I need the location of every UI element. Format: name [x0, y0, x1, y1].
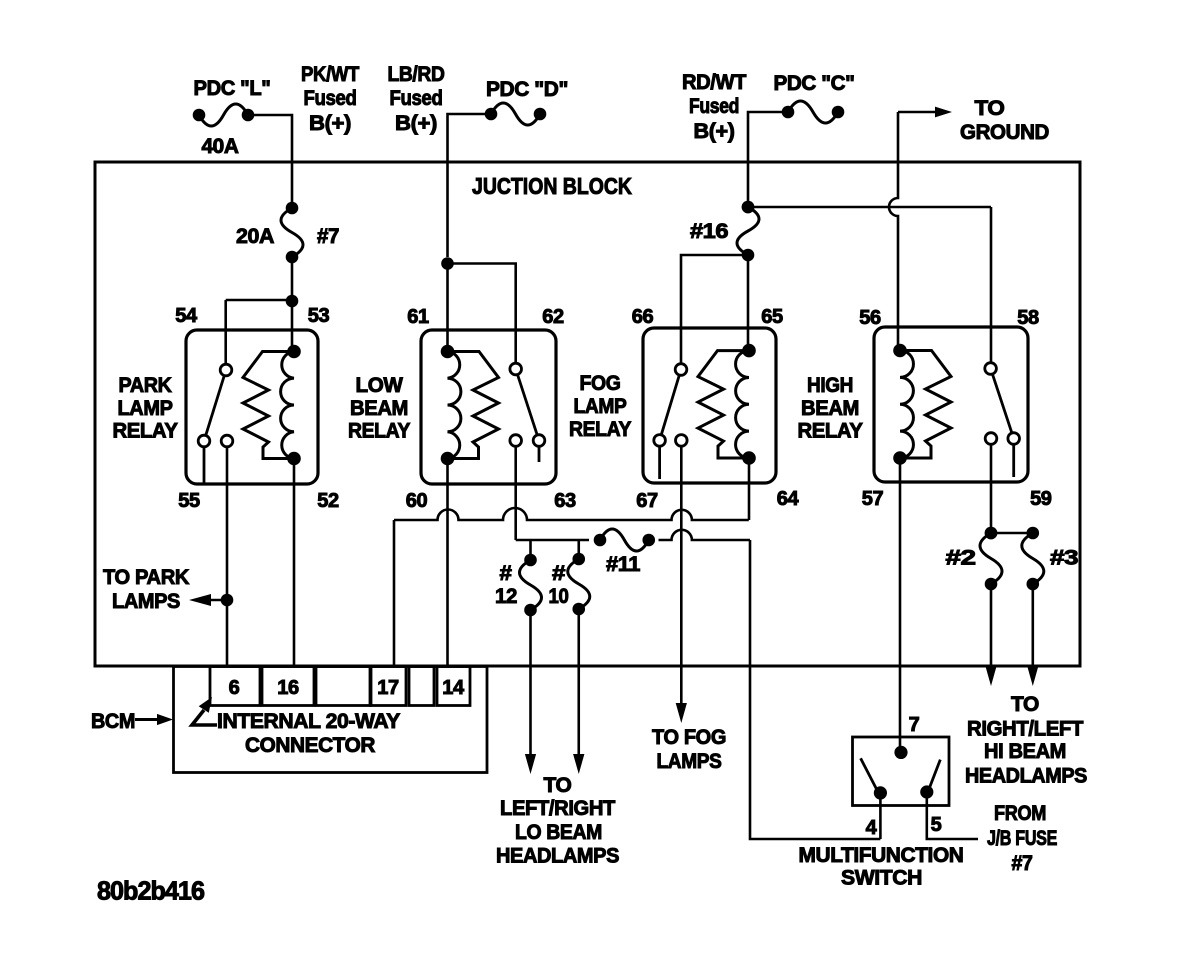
wire PDC C to fuse 16 [748, 112, 788, 201]
svg-text:#: # [552, 562, 566, 585]
relay K1 switch [198, 364, 233, 483]
svg-text:60: 60 [406, 490, 428, 512]
svg-text:PK/WT: PK/WT [301, 63, 360, 86]
svg-text:TO FOG: TO FOG [652, 726, 726, 749]
wire fuse12 stub [529, 540, 532, 555]
label #11 [606, 553, 641, 576]
wire pin54 drop [224, 300, 227, 364]
svg-text:LAMPS: LAMPS [657, 750, 722, 773]
bus pin17 to pin64 [394, 508, 749, 666]
relay K4 high beam box [874, 327, 1028, 482]
pin 62 label [542, 306, 564, 328]
label RD/WT Fused B+ [682, 71, 747, 143]
pin 14 label [442, 677, 465, 699]
wire pin52 out [293, 459, 296, 667]
pin 58 label [1017, 307, 1039, 329]
arrow lo beam left [525, 754, 536, 774]
pin 7 node [894, 746, 907, 759]
svg-text:52: 52 [317, 490, 339, 512]
pin 54 label [175, 305, 198, 327]
fuse 2 [980, 527, 1002, 591]
pin 61 label [407, 306, 429, 328]
wire pin58 drop [990, 207, 993, 363]
wire PDC L to fuse 7 [248, 115, 292, 202]
wire PDC D to low beam [448, 114, 492, 257]
fuse PDC C [782, 101, 845, 123]
arrow BCM [135, 714, 173, 725]
svg-text:LAMP: LAMP [574, 395, 627, 418]
svg-text:7: 7 [909, 714, 920, 736]
label FOG LAMP RELAY [569, 372, 631, 441]
svg-text:FOG: FOG [580, 372, 621, 395]
svg-text:HI BEAM: HI BEAM [984, 740, 1066, 763]
wire bus to multifunction pin4 [750, 540, 880, 839]
arrow to fog lamps [676, 703, 687, 723]
svg-text:65: 65 [761, 306, 783, 328]
label LOW BEAM RELAY [348, 374, 410, 443]
svg-text:MULTIFUNCTION: MULTIFUNCTION [799, 844, 964, 867]
wire fuse16 to pin65 [747, 255, 750, 352]
label #16 [690, 220, 728, 243]
pin 7 label [909, 714, 920, 736]
svg-text:53: 53 [308, 305, 330, 327]
wire fuse16 branch pin66 [681, 255, 748, 363]
node 61 junction [441, 257, 454, 351]
bus pin63 to multifunction [516, 530, 750, 540]
svg-text:16: 16 [277, 677, 299, 699]
label PARK LAMP RELAY [113, 374, 178, 443]
label HIGH BEAM RELAY [798, 374, 863, 443]
label FROM J/B FUSE #7 [987, 802, 1057, 875]
label #3 [1050, 547, 1078, 570]
node 53 junction [226, 295, 299, 352]
pin 60 label [406, 490, 428, 512]
wire node to pin58 horizontal [748, 206, 991, 209]
svg-text:RELAY: RELAY [569, 418, 631, 441]
label JUCTION BLOCK [472, 173, 632, 199]
wire pin67 out [680, 446, 683, 703]
svg-text:LB/RD: LB/RD [388, 63, 445, 86]
svg-text:HEADLAMPS: HEADLAMPS [965, 765, 1087, 788]
pin 52 label [317, 490, 339, 512]
svg-text:RIGHT/LEFT: RIGHT/LEFT [967, 718, 1084, 741]
connector outer box [174, 667, 488, 773]
svg-text:64: 64 [777, 488, 800, 510]
label PDC L [194, 77, 271, 100]
svg-text:HIGH: HIGH [807, 374, 853, 397]
fuse PDC D [485, 103, 547, 125]
svg-text:40A: 40A [202, 135, 239, 158]
wire pin57 to multifunction [899, 458, 902, 746]
pin 57 label [862, 488, 884, 510]
wire lo beam right [577, 609, 580, 756]
wire 59 to fuse3 [991, 532, 1033, 535]
fuse 11 [594, 529, 655, 551]
connector pin cells [210, 667, 470, 706]
wire pin55 out [226, 447, 229, 666]
svg-text:LO BEAM: LO BEAM [515, 821, 602, 844]
svg-text:14: 14 [442, 677, 465, 699]
svg-text:SWITCH: SWITCH [841, 867, 922, 890]
svg-text:RELAY: RELAY [113, 420, 178, 443]
fuse 12 [520, 554, 542, 617]
fuse PDC L 40A [193, 104, 255, 126]
svg-text:PDC "L": PDC "L" [194, 77, 271, 100]
figure number [97, 876, 205, 906]
junction block outline [95, 162, 1080, 666]
svg-text:TO PARK: TO PARK [103, 566, 189, 589]
svg-text:B(+): B(+) [694, 120, 735, 143]
arrow hi beam left [985, 666, 996, 686]
pin 67 label [636, 490, 658, 512]
relay K2 low beam box [421, 330, 556, 484]
svg-text:LEFT/RIGHT: LEFT/RIGHT [500, 797, 616, 820]
svg-text:RD/WT: RD/WT [682, 71, 747, 94]
svg-text:LOW: LOW [356, 374, 404, 397]
svg-text:LAMP: LAMP [118, 397, 173, 420]
svg-text:55: 55 [178, 490, 200, 512]
wire pin59 out [990, 444, 993, 533]
svg-text:LAMPS: LAMPS [112, 590, 180, 613]
svg-text:INTERNAL 20-WAY: INTERNAL 20-WAY [217, 710, 400, 733]
fuse 7 20A [281, 202, 303, 264]
pin 64 label [777, 488, 800, 510]
wire to ground vertical with hop [889, 112, 898, 351]
svg-text:TO: TO [975, 97, 1005, 120]
wire lo beam left [529, 610, 532, 756]
label TO LEFT/RIGHT LO BEAM HEADLAMPS [496, 774, 619, 868]
label TO GROUND [960, 97, 1049, 144]
svg-text:80b2b416: 80b2b416 [97, 876, 205, 906]
relay K3 coil [698, 344, 756, 465]
svg-text:54: 54 [175, 305, 198, 327]
svg-text:JUCTION BLOCK: JUCTION BLOCK [472, 173, 632, 199]
svg-text:BCM: BCM [91, 710, 135, 733]
label TO FOG LAMPS [652, 726, 726, 773]
svg-text:10: 10 [549, 585, 569, 608]
svg-text:6: 6 [229, 677, 240, 699]
svg-text:57: 57 [862, 488, 884, 510]
pin 65 label [761, 306, 783, 328]
svg-text:FROM: FROM [994, 802, 1046, 825]
svg-text:59: 59 [1030, 488, 1052, 510]
fuse 16 [737, 201, 759, 262]
pin 59 label [1030, 488, 1052, 510]
svg-text:TO: TO [1011, 693, 1039, 716]
multifunction switch box [853, 737, 950, 806]
label INTERNAL 20-WAY CONNECTOR [217, 710, 400, 757]
svg-text:PDC "D": PDC "D" [486, 78, 568, 101]
wire pin63 out [514, 446, 517, 540]
label #2 [946, 547, 976, 570]
svg-text:B(+): B(+) [309, 112, 351, 135]
svg-text:61: 61 [407, 306, 429, 328]
wire pin60 out [446, 459, 449, 667]
svg-text:58: 58 [1017, 307, 1039, 329]
svg-text:4: 4 [866, 817, 878, 839]
label #7 [317, 225, 339, 248]
label MULTIFUNCTION SWITCH [799, 844, 964, 890]
label 20A [236, 225, 274, 248]
svg-text:20A: 20A [236, 225, 274, 248]
svg-text:56: 56 [859, 307, 881, 329]
relay K4 coil [893, 344, 951, 465]
wire pin5 [927, 792, 978, 839]
svg-text:PDC "C": PDC "C" [774, 72, 855, 95]
relay K2 switch [510, 363, 545, 462]
svg-text:63: 63 [554, 490, 576, 512]
pin 17 label [377, 677, 399, 699]
arrow to park lamps [189, 594, 211, 606]
fuse 10 [568, 553, 590, 616]
svg-text:12: 12 [495, 585, 517, 608]
label 40A [202, 135, 239, 158]
svg-text:J/B FUSE: J/B FUSE [987, 827, 1057, 850]
bolt arrow to connector [192, 697, 217, 725]
pin 5 label [931, 814, 942, 836]
label TO RIGHT/LEFT HI BEAM HEADLAMPS [965, 693, 1087, 788]
wire hi beam left [990, 584, 993, 668]
relay K3 switch [654, 364, 687, 479]
label PK/WT Fused B+ [301, 63, 360, 135]
relay K4 switch [985, 363, 1020, 477]
svg-text:Fused: Fused [689, 95, 739, 118]
svg-text:BEAM: BEAM [350, 397, 408, 420]
label #12 [495, 562, 517, 608]
pin 66 label [632, 306, 654, 328]
relay K1 park lamp box [186, 330, 318, 484]
pin 55 label [178, 490, 200, 512]
wire to ground horizontal [898, 111, 936, 114]
arrow to ground [935, 107, 952, 118]
svg-text:#16: #16 [690, 220, 728, 243]
label PDC C [774, 72, 855, 95]
svg-text:#11: #11 [606, 553, 641, 576]
svg-text:TO: TO [544, 774, 572, 797]
fuse 3 [1022, 527, 1044, 591]
pin 56 label [859, 307, 881, 329]
wire fuse7 to node53 [291, 257, 294, 301]
wire pin62 branch [448, 264, 516, 364]
node park lamps [221, 594, 234, 607]
switch arm right [920, 760, 940, 799]
svg-text:HEADLAMPS: HEADLAMPS [496, 845, 619, 868]
svg-text:67: 67 [636, 490, 658, 512]
svg-text:CONNECTOR: CONNECTOR [245, 734, 375, 757]
label #10 [549, 562, 569, 608]
relay K3 fog lamp box [643, 328, 776, 483]
wire hi beam right [1032, 584, 1035, 668]
svg-text:B(+): B(+) [395, 112, 437, 135]
pin 53 label [308, 305, 330, 327]
switch arm left [861, 758, 887, 799]
pin 16 label [277, 677, 299, 699]
pin 63 label [554, 490, 576, 512]
svg-text:BEAM: BEAM [801, 397, 859, 420]
relay K2 coil [441, 345, 499, 466]
wire pin64 out [748, 458, 751, 520]
svg-text:Fused: Fused [390, 87, 443, 110]
wire pin4 [879, 793, 882, 839]
svg-text:17: 17 [377, 677, 399, 699]
relay K1 coil [243, 345, 301, 466]
label TO PARK LAMPS [103, 566, 189, 613]
arrow lo beam right [573, 754, 584, 774]
label PDC D [486, 78, 568, 101]
svg-text:GROUND: GROUND [960, 121, 1049, 144]
arrow hi beam right [1027, 666, 1038, 686]
svg-text:#7: #7 [1012, 852, 1033, 875]
node 59 junction [985, 527, 998, 540]
svg-text:66: 66 [632, 306, 654, 328]
svg-text:#2: #2 [946, 547, 976, 570]
svg-text:#3: #3 [1050, 547, 1078, 570]
pin 6 label [229, 677, 240, 699]
wire fuse10 stub [577, 540, 580, 554]
svg-text:RELAY: RELAY [348, 420, 410, 443]
svg-text:Fused: Fused [304, 87, 357, 110]
svg-text:62: 62 [542, 306, 564, 328]
label LB/RD Fused B+ [388, 63, 445, 135]
svg-text:5: 5 [931, 814, 942, 836]
pin 4 label [866, 817, 878, 839]
svg-text:#: # [500, 562, 513, 585]
label BCM [91, 710, 135, 733]
svg-text:PARK: PARK [119, 374, 172, 397]
svg-text:RELAY: RELAY [798, 420, 863, 443]
svg-text:#7: #7 [317, 225, 339, 248]
node fuse16 top [742, 201, 755, 214]
wire park arrow line [196, 599, 222, 602]
